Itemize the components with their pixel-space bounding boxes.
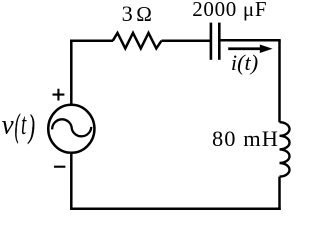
svg-text:2000 μF: 2000 μF (192, 0, 267, 21)
svg-text:): ) (27, 108, 35, 145)
current arrow head (260, 45, 273, 54)
wire right side upper (278, 40, 281, 122)
wire top-left horizontal (70, 39, 113, 42)
wire bottom horizontal (70, 207, 281, 210)
wire left side upper (70, 39, 73, 105)
capacitor C left plate (210, 23, 213, 60)
svg-text:(: ( (15, 109, 21, 144)
wire right side lower (278, 177, 281, 210)
current arrow shaft (228, 47, 261, 50)
svg-text:Ω: Ω (136, 2, 152, 26)
capacitor C right plate (218, 23, 221, 60)
inductor L 80mH coil (280, 122, 290, 176)
svg-text:80 mH: 80 mH (212, 126, 279, 151)
plus sign polarity (53, 89, 65, 101)
minus sign polarity (54, 166, 65, 168)
svg-text:3: 3 (122, 1, 133, 26)
svg-text:v: v (2, 110, 14, 140)
label v(t) (2, 108, 35, 145)
wire left side lower (70, 152, 73, 210)
resistor R 3-ohm zigzag (113, 33, 162, 49)
wire capacitor-to-corner (219, 39, 280, 42)
voltage source V circle (48, 105, 94, 153)
wire resistor-to-capacitor (162, 39, 211, 42)
svg-text:i(t): i(t) (231, 50, 258, 75)
svg-text:t: t (21, 108, 27, 142)
voltage source sine wave (52, 119, 91, 136)
